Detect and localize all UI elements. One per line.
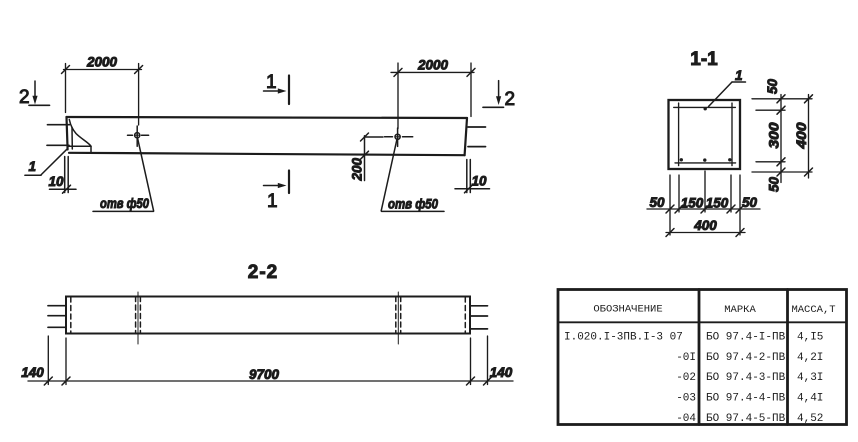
- svg-text:10: 10: [471, 174, 487, 189]
- svg-text:-0I: -0I: [676, 352, 696, 364]
- protruding bars left end: [47, 125, 70, 146]
- svg-text:БО 97.4-5-ПВ: БО 97.4-5-ПВ: [706, 413, 786, 425]
- dimension 2000 right: [391, 63, 475, 129]
- beam end notch detail: [68, 120, 91, 153]
- protruding bars right end: [468, 127, 486, 147]
- svg-text:50: 50: [649, 195, 665, 210]
- svg-text:БО 97.4-2-ПВ: БО 97.4-2-ПВ: [706, 352, 786, 364]
- label otv f50 left: [93, 138, 154, 212]
- hole otv f50 right: [385, 128, 413, 146]
- label otv f50 right: [381, 139, 444, 211]
- section mark 2 left: [29, 81, 50, 105]
- svg-text:отв ф50: отв ф50: [100, 196, 149, 211]
- svg-text:2: 2: [19, 87, 30, 108]
- svg-text:-04: -04: [676, 413, 696, 425]
- svg-text:4,52: 4,52: [797, 413, 823, 425]
- section 1-1 rebar dots: [680, 107, 732, 162]
- svg-text:1: 1: [267, 191, 278, 212]
- svg-text:50: 50: [765, 78, 780, 94]
- section 2-2 beam outline: [66, 297, 470, 334]
- svg-text:140: 140: [490, 365, 513, 380]
- svg-text:2-2: 2-2: [248, 262, 278, 283]
- dimension 10 left: [50, 157, 77, 194]
- leader label 1 (beam end): [25, 149, 67, 176]
- table outer border: [558, 290, 847, 425]
- hole otv f50 left: [128, 126, 149, 146]
- table header separator: [558, 321, 847, 323]
- svg-text:-02: -02: [676, 372, 696, 384]
- section 1-1 dim line 50/150/150/50: [647, 205, 760, 213]
- svg-text:400: 400: [794, 122, 809, 150]
- section 2-2 bars right: [470, 306, 488, 329]
- svg-text:10: 10: [48, 174, 64, 189]
- svg-text:4,4I: 4,4I: [797, 393, 823, 405]
- section 1-1 right extension lines: [752, 99, 812, 172]
- section mark 2 right: [483, 81, 504, 108]
- svg-text:БО 97.4-3-ПВ: БО 97.4-3-ПВ: [706, 372, 786, 384]
- dimension 200: [361, 133, 384, 181]
- svg-text:1: 1: [266, 72, 277, 93]
- section 1-1 leader label 1: [709, 82, 746, 107]
- svg-text:БО 97.4-4-ПВ: БО 97.4-4-ПВ: [706, 393, 786, 405]
- svg-text:300: 300: [767, 122, 782, 149]
- svg-text:отв ф50: отв ф50: [388, 197, 438, 212]
- table column separator 2: [786, 290, 789, 425]
- svg-text:2000: 2000: [86, 55, 118, 70]
- svg-text:50: 50: [767, 176, 782, 192]
- svg-text:200: 200: [350, 157, 365, 181]
- svg-text:I.020.I-3ПВ.I-3 07: I.020.I-3ПВ.I-3 07: [564, 332, 683, 344]
- beam outline (elevation): [67, 117, 468, 155]
- section 2-2 bars left: [48, 306, 66, 328]
- svg-text:1: 1: [29, 159, 37, 174]
- svg-text:1: 1: [735, 68, 743, 83]
- section 2-2 extension lines: [48, 336, 487, 385]
- section 1-1 dim line 400 vertical: [805, 95, 813, 179]
- section 2-2 lifting point left: [136, 292, 141, 344]
- table column separator 1: [698, 290, 701, 425]
- svg-text:1-1: 1-1: [690, 49, 718, 70]
- svg-text:150: 150: [681, 196, 704, 211]
- section 1-1 dim line 50/300/50: [777, 95, 785, 183]
- section 2-2 dimension line 140/9700/140: [28, 377, 513, 385]
- svg-text:150: 150: [706, 196, 729, 211]
- section 2-2 lifting point right: [396, 292, 401, 344]
- svg-text:БО 97.4-I-ПВ: БО 97.4-I-ПВ: [706, 332, 786, 344]
- svg-text:50: 50: [742, 195, 758, 210]
- section 1-1 stirrup: [674, 103, 736, 166]
- svg-text:4,2I: 4,2I: [797, 352, 823, 364]
- section mark 1 bottom: [264, 171, 290, 194]
- svg-text:140: 140: [21, 365, 44, 380]
- svg-text:4,I5: 4,I5: [797, 332, 823, 344]
- svg-text:400: 400: [693, 218, 717, 233]
- svg-text:МАРКА: МАРКА: [724, 304, 756, 316]
- svg-text:2000: 2000: [417, 58, 449, 73]
- svg-text:2: 2: [505, 89, 516, 110]
- svg-text:9700: 9700: [249, 367, 280, 382]
- svg-text:МАССА,Т: МАССА,Т: [791, 304, 835, 316]
- dimension 2000 left: [62, 64, 143, 126]
- section 1-1 bottom extension lines: [670, 171, 740, 235]
- section mark 1 top: [264, 76, 290, 105]
- svg-text:ОБОЗНАЧЕНИЕ: ОБОЗНАЧЕНИЕ: [593, 304, 662, 316]
- section 2-2 dashed end lines: [71, 297, 466, 333]
- svg-text:-03: -03: [676, 393, 696, 405]
- section 1-1 dim line 400 bottom: [666, 229, 745, 237]
- svg-text:4,3I: 4,3I: [797, 372, 823, 384]
- dimension 10 right: [455, 160, 490, 193]
- section 1-1 outer square: [669, 100, 741, 169]
